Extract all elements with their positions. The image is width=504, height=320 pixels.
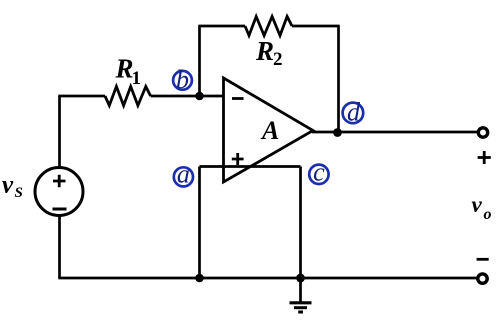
voltage source VS circle bbox=[35, 168, 83, 216]
wire: top feedback wire right of R2 bbox=[292, 25, 340, 28]
resistor R1 bbox=[105, 87, 151, 106]
svg-text:c: c bbox=[313, 158, 325, 187]
output terminal bottom bbox=[478, 274, 487, 283]
label vo bbox=[472, 192, 492, 223]
wire: left vertical below source bbox=[58, 215, 61, 278]
wire: feedback left vertical bbox=[198, 26, 201, 96]
svg-text:d: d bbox=[347, 98, 361, 127]
junction dot node d bbox=[333, 128, 342, 137]
output terminal top bbox=[478, 128, 487, 137]
op-amp U1 triangle bbox=[224, 78, 314, 182]
label vS bbox=[2, 172, 23, 202]
voltage source minus sign bbox=[53, 208, 67, 211]
wire: top input wire left of R1 bbox=[58, 95, 105, 98]
op-amp inverting input minus sign bbox=[232, 97, 244, 100]
wire: input wire from R1 to op-amp inverting input bbox=[151, 95, 225, 98]
wire: + input horizontal from node a branch to node c branch bbox=[200, 165, 301, 168]
wire: node c branch vertical down to bottom rail bbox=[299, 167, 302, 279]
svg-text:v: v bbox=[2, 172, 14, 199]
op-amp gain label A bbox=[260, 116, 279, 145]
svg-text:a: a bbox=[177, 160, 190, 189]
svg-text:A: A bbox=[260, 116, 279, 145]
svg-text:b: b bbox=[176, 65, 189, 94]
svg-text:o: o bbox=[484, 206, 492, 223]
junction dot node c bottom / ground bbox=[296, 274, 305, 283]
wire: top feedback wire left of R2 bbox=[198, 25, 245, 28]
junction dot node a bottom bbox=[195, 274, 204, 283]
output minus mark bbox=[477, 258, 489, 261]
voltage source plus sign bbox=[53, 175, 66, 187]
node a circled label bbox=[174, 160, 193, 189]
ground bbox=[290, 278, 312, 312]
label R2 bbox=[255, 36, 283, 70]
wire: node a branch vertical down to bottom rail bbox=[198, 167, 201, 279]
op-amp noninverting input plus sign bbox=[232, 153, 244, 165]
wire: feedback right vertical down to output node bbox=[337, 26, 340, 133]
svg-text:2: 2 bbox=[273, 49, 283, 70]
wire: bottom rail bbox=[58, 277, 483, 280]
svg-text:1: 1 bbox=[132, 68, 142, 89]
node d circled label bbox=[343, 98, 364, 127]
label R1 bbox=[115, 54, 142, 90]
svg-text:S: S bbox=[15, 185, 23, 201]
svg-text:R: R bbox=[255, 36, 274, 66]
svg-text:v: v bbox=[472, 192, 483, 217]
junction dot node b bbox=[195, 92, 204, 101]
output plus mark bbox=[478, 151, 491, 164]
node b circled label bbox=[173, 65, 192, 94]
wire: output wire from op-amp apex to terminal bbox=[312, 131, 483, 134]
node c circled label bbox=[309, 158, 328, 187]
wire: left vertical above source bbox=[58, 96, 61, 168]
resistor R2 bbox=[245, 17, 292, 36]
